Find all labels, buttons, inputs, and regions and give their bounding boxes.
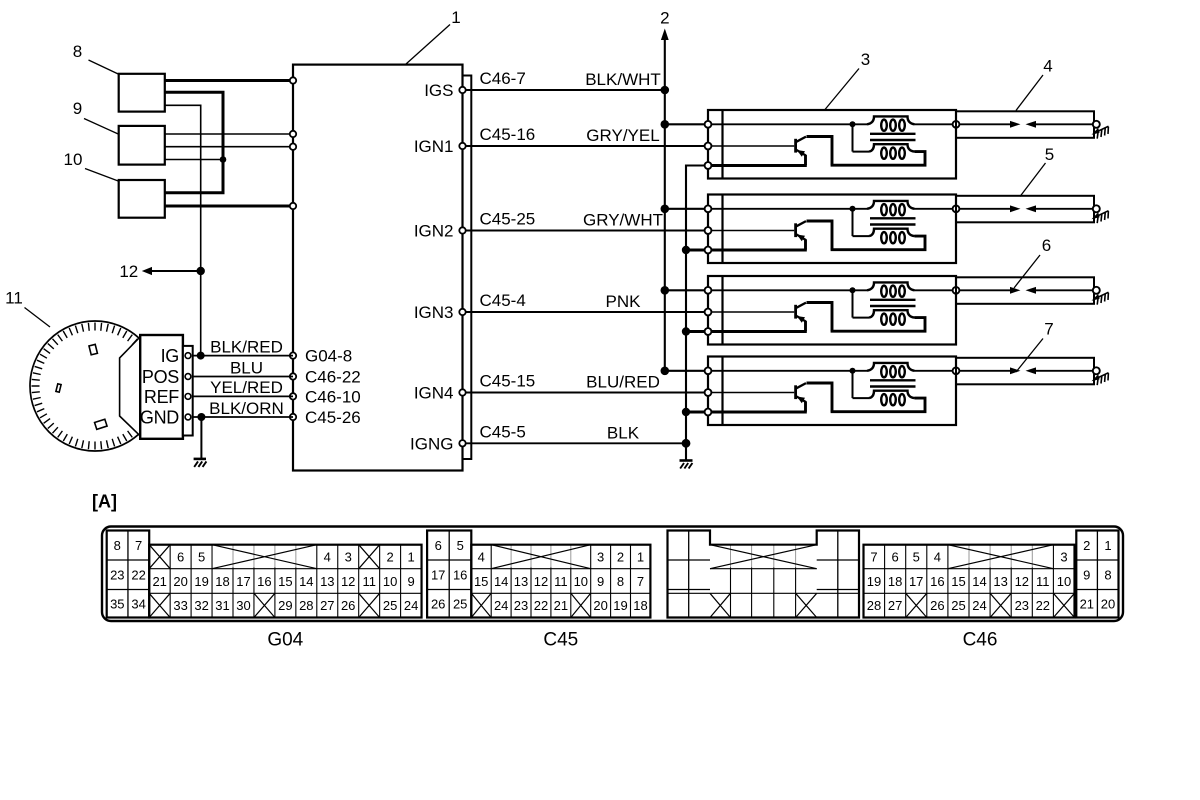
svg-text:35: 35 [110,596,124,611]
C46 pin 3 [1060,550,1067,565]
svg-text:BLU/RED: BLU/RED [586,373,660,392]
G04 pin 12 [341,574,355,589]
ECU pin IGN4 [414,384,466,403]
svg-text:30: 30 [236,598,250,613]
transformer T3 secondary winding [853,290,915,325]
C45 keyway [491,545,591,569]
G04 pin 10 [383,574,397,589]
connector middle shell [668,531,860,618]
svg-text:1: 1 [637,550,644,565]
svg-text:32: 32 [194,598,208,613]
spark plug 5 gap [960,205,1093,212]
C45 blocked cavity [471,593,491,617]
label 8 [73,42,118,74]
C46 pin 18 [888,574,902,589]
svg-text:15: 15 [951,574,965,589]
svg-text:6: 6 [1042,236,1051,255]
C46 pin 22 [1036,598,1050,613]
G04 pin 13 [320,574,334,589]
transistor Q3 [796,303,832,332]
svg-text:IGN2: IGN2 [414,222,454,241]
transformer T2 core [870,218,916,224]
wire YEL/RED (REF to C46-10) [193,378,293,397]
connector name C45 [543,630,578,651]
svg-text:C45-15: C45-15 [480,372,536,391]
svg-text:7: 7 [135,538,142,553]
svg-text:23: 23 [1015,598,1029,613]
C46 pin 6 [891,550,898,565]
wire box8 to ECU pin [165,79,293,82]
svg-text:IG: IG [161,346,179,366]
junction GND wire [197,413,205,421]
G04 pin 24 [404,598,418,613]
svg-text:31: 31 [215,598,229,613]
svg-text:12: 12 [1015,574,1029,589]
C46 pin 16 [930,574,944,589]
connector C45 main grid [471,545,650,618]
label 3 [825,50,870,110]
svg-text:2: 2 [660,9,669,28]
svg-text:18: 18 [215,574,229,589]
C45 pin 2 [617,550,624,565]
svg-text:C46: C46 [963,630,998,651]
distributor pin REF [144,387,191,407]
svg-text:17: 17 [236,574,250,589]
svg-text:29: 29 [278,598,292,613]
ECU pin IGNG [410,434,466,453]
svg-text:BLK: BLK [607,423,640,442]
svg-text:BLK/ORN: BLK/ORN [209,399,284,418]
svg-text:25: 25 [951,598,965,613]
junction bus-module 4 [661,367,670,376]
C45 pin 20 [593,598,607,613]
C45 pin 9 [597,574,604,589]
spark plug 6 terminal [1093,287,1100,294]
ECU left pin 6 [290,373,296,379]
svg-text:28: 28 [299,598,313,613]
svg-text:22: 22 [131,568,145,583]
svg-text:G04-8: G04-8 [305,347,352,366]
spark plug 4 chassis ground [1092,126,1109,138]
pin label C46-10 [305,387,361,406]
svg-text:4: 4 [1043,57,1052,76]
distributor connector box [140,335,183,439]
C46 pin 24 [972,598,986,613]
ECU left pin 4 [290,203,296,209]
G04 pin 17 [236,574,250,589]
svg-text:6: 6 [891,550,898,565]
pin label C46-22 [305,368,361,387]
connector view container [102,527,1123,622]
ECU left pin 5 [290,352,296,358]
C46 pin 28 [867,598,881,613]
junction node IG wire [197,352,205,360]
ECU pin IGN1 [414,137,466,156]
wire ground bus to module 3 pin3 [686,330,705,333]
svg-text:IGS: IGS [424,81,453,100]
wire BLU/RED (C45-15) [466,372,705,393]
G04 keyway [212,545,317,569]
G04 blocked cavity [359,545,380,569]
wire box9 pin C to loop node [165,159,223,161]
svg-text:3: 3 [861,50,870,69]
C46 pin 15 [951,574,965,589]
svg-text:19: 19 [613,598,627,613]
junction gnd-module 2 [682,246,690,254]
C45 pin 7 [637,574,644,589]
C45 pin 19 [613,598,627,613]
svg-text:7: 7 [1044,320,1053,339]
module 1 pin 1 [705,121,712,128]
C46 blocked cavity [906,593,927,617]
C46 pin 4 [934,550,941,565]
label 9 [73,99,118,134]
wire PNK (C45-4) [466,291,705,312]
C46 blocked cavity [990,593,1011,617]
module 1 emitter ground wire [712,164,807,167]
svg-text:33: 33 [173,598,187,613]
svg-text:9: 9 [1083,568,1090,583]
C45 pin 4 [478,550,485,565]
svg-text:6: 6 [435,538,442,553]
svg-text:26: 26 [431,596,445,611]
module 4 junction primary-secondary [850,368,856,374]
svg-text:21: 21 [152,574,166,589]
G04 pin 32 [194,598,208,613]
C45 pin 18 [633,598,647,613]
C45 pin 12 [534,574,548,589]
C46 keyway [948,545,1054,569]
ignition coil module 4 case [708,357,956,426]
svg-text:20: 20 [1101,596,1115,611]
svg-text:4: 4 [478,550,485,565]
svg-text:24: 24 [494,598,508,613]
svg-text:7: 7 [637,574,644,589]
wire BLK/ORN (GND to C45-26) [193,399,293,418]
G04 pin 14 [299,574,313,589]
svg-text:9: 9 [597,574,604,589]
inset label [A] [92,492,117,512]
svg-text:IGN3: IGN3 [414,303,454,322]
svg-text:15: 15 [278,574,292,589]
label 4 [1016,57,1053,111]
G04 pin 31 [215,598,229,613]
svg-text:19: 19 [867,574,881,589]
svg-text:10: 10 [1057,574,1071,589]
junction bus-module 2 [661,205,670,214]
svg-text:IGNG: IGNG [410,434,453,453]
module 2 pin 2 [705,227,712,234]
C45 pin 13 [514,574,528,589]
module 4 emitter ground wire [712,411,807,414]
ground bus [686,166,705,460]
svg-text:1: 1 [407,550,414,565]
G04 pin 5 [198,550,205,565]
ground symbol G1 [680,461,693,469]
svg-text:GRY/YEL: GRY/YEL [586,126,659,145]
svg-text:10: 10 [383,574,397,589]
module 2 primary output wire [915,208,953,210]
spark plug 7 chassis ground [1092,373,1109,385]
transformer T1 primary winding [867,116,915,130]
distributor body 11 [30,321,160,451]
svg-text:16: 16 [257,574,271,589]
junction box9-loop [220,156,227,163]
power bus from ignition switch [661,29,705,371]
G04 pin 2 [386,550,393,565]
module 2 pin 3 [705,247,712,254]
module 3 emitter ground wire [712,330,807,333]
label 5 [1020,145,1054,197]
wire box9 pin A to ECU [165,133,293,135]
svg-text:2: 2 [386,550,393,565]
svg-text:C45-26: C45-26 [305,408,361,427]
svg-text:16: 16 [930,574,944,589]
wire GRY/WHT (C45-25) [466,210,705,231]
spark plug 6 gap [960,287,1093,294]
svg-text:16: 16 [453,568,467,583]
svg-text:25: 25 [383,598,397,613]
module 4 primary output wire [915,370,953,372]
svg-text:8: 8 [114,538,121,553]
svg-text:3: 3 [597,550,604,565]
distributor pin IG [161,346,191,366]
module 2 pin 1 [705,205,712,212]
svg-text:9: 9 [407,574,414,589]
svg-text:13: 13 [320,574,334,589]
C46 pin 5 [913,550,920,565]
G04 pin 30 [236,598,250,613]
svg-text:15: 15 [474,574,488,589]
C45 pin 21 [554,598,568,613]
spark plug assembly 5 body [956,196,1094,223]
pin label C45-26 [305,408,361,427]
junction bus-IGS [661,86,670,95]
C46 pin 7 [870,550,877,565]
distributor pin GND [140,408,191,428]
svg-text:3: 3 [345,550,352,565]
svg-text:[A]: [A] [92,492,117,512]
wire box8 to box10 loop [165,92,223,193]
middle connector blocked cavity left [710,593,731,617]
C46 pin 12 [1015,574,1029,589]
G04 pin 15 [278,574,292,589]
svg-text:C46-10: C46-10 [305,387,361,406]
svg-text:BLK/WHT: BLK/WHT [585,70,661,89]
svg-text:18: 18 [888,574,902,589]
svg-text:22: 22 [1036,598,1050,613]
transistor Q1 [796,137,832,166]
ignition coil module 3 case [708,276,956,345]
component box 9 [119,126,165,165]
module 3 primary output wire [915,289,953,291]
svg-text:10: 10 [64,150,83,169]
svg-text:24: 24 [404,598,418,613]
wire BLK (C45-5) [466,422,686,443]
component box 8 [119,74,165,112]
ignition coil module 2 case [708,195,956,264]
svg-text:5: 5 [913,550,920,565]
svg-text:12: 12 [534,574,548,589]
svg-text:14: 14 [972,574,986,589]
module 3 pin 3 [705,328,712,335]
module 2 emitter ground wire [712,249,807,252]
C46 pin 19 [867,574,881,589]
ECU left pin 2 [290,131,296,137]
svg-text:8: 8 [73,42,82,61]
svg-text:IGN4: IGN4 [414,384,454,403]
svg-text:11: 11 [1036,574,1050,589]
module 1 primary output wire [915,123,953,125]
G04 pin 6 [177,550,184,565]
svg-text:BLK/RED: BLK/RED [210,337,283,356]
distributor ground drop [200,417,202,458]
svg-text:C45-4: C45-4 [480,291,526,310]
wire bus to coil module 2 pin1 [665,208,705,210]
C45 pin 8 [617,574,624,589]
svg-text:20: 20 [593,598,607,613]
svg-text:4: 4 [934,550,941,565]
wire box10 to ECU pin [165,205,293,208]
wire bus to coil module 3 pin1 [665,289,705,291]
transistor Q2 base wire [712,230,795,232]
C45 pin 3 [597,550,604,565]
distributor rotor vane B [56,384,61,392]
transformer T3 core [870,300,916,306]
svg-text:IGN1: IGN1 [414,137,454,156]
svg-text:27: 27 [320,598,334,613]
G04 pin 1 [407,550,414,565]
svg-text:26: 26 [930,598,944,613]
connector G04 side block [107,531,150,618]
wire box8 branch down to IG node [165,105,201,355]
ECU left pin 3 [290,144,296,150]
C45 pin 23 [514,598,528,613]
G04 pin 19 [194,574,208,589]
svg-text:24: 24 [972,598,986,613]
svg-text:23: 23 [514,598,528,613]
svg-text:C45-25: C45-25 [480,210,536,229]
svg-text:G04: G04 [267,630,303,651]
module 1 output pin [953,121,960,128]
C46 pin 17 [909,574,923,589]
svg-text:9: 9 [73,99,82,118]
svg-text:11: 11 [362,574,376,589]
module 3 secondary return path [831,318,925,332]
G04 pin 29 [278,598,292,613]
distributor pin POS [142,367,191,387]
junction gnd-module 3 [682,327,690,335]
transformer T2 primary winding [867,201,915,215]
G04 pin 16 [257,574,271,589]
component box 10 [119,180,165,218]
svg-text:2: 2 [617,550,624,565]
transformer T3 primary winding [867,282,915,296]
module 1 supply wire [712,123,868,125]
module 1 pin 2 [705,143,712,150]
svg-text:3: 3 [1060,550,1067,565]
svg-text:2: 2 [1083,538,1090,553]
svg-text:18: 18 [633,598,647,613]
wire BLK/WHT (C46-7) [466,69,665,90]
G04 pin 33 [173,598,187,613]
C46 pin 25 [951,598,965,613]
svg-text:12: 12 [119,262,138,281]
junction gnd-module 4 [682,408,690,416]
svg-text:28: 28 [867,598,881,613]
svg-text:BLU: BLU [230,358,263,377]
junction bus-module 1 [661,120,670,129]
G04 blocked cavity [254,593,275,617]
C46 blocked cavity [1053,593,1074,617]
svg-text:12: 12 [341,574,355,589]
G04 pin 26 [341,598,355,613]
svg-text:REF: REF [144,387,179,407]
module 4 pin 1 [705,367,712,374]
C46 pin 13 [993,574,1007,589]
spark plug 5 terminal [1093,205,1100,212]
wire ground bus to module 4 pin3 [686,411,705,414]
C45 pin 24 [494,598,508,613]
ECU left pin 7 [290,393,296,399]
svg-text:25: 25 [453,596,467,611]
wire GRY/YEL (C45-16) [466,125,705,146]
G04 pin 28 [299,598,313,613]
ECU connector strip [463,76,472,460]
wire BLK/RED (IG to G04-8) [193,337,293,356]
label 2 [660,9,669,28]
connector C45 side block [427,531,471,618]
middle connector keyway [710,545,817,569]
C45 pin 14 [494,574,508,589]
module 2 supply wire [712,208,868,210]
junction gnd-IGNG [682,439,691,448]
spark plug 7 terminal [1093,367,1100,374]
junction node 12 [197,267,205,275]
svg-text:5: 5 [1045,145,1054,164]
svg-text:C46-22: C46-22 [305,368,361,387]
transistor Q4 [796,383,832,412]
svg-text:6: 6 [177,550,184,565]
C45 pin 10 [574,574,588,589]
transistor Q2 [796,221,832,250]
G04 pin 11 [362,574,376,589]
ECU pin IGS [424,81,465,100]
wire BLU (POS to C46-22) [193,358,293,377]
module 4 pin 3 [705,409,712,416]
spark plug 5 chassis ground [1092,211,1109,223]
module 4 supply wire [712,370,868,372]
svg-text:14: 14 [494,574,508,589]
spark plug assembly 6 body [956,277,1094,304]
G04 pin 4 [324,550,331,565]
connector name G04 [267,630,303,651]
ECU left pin 1 [290,77,296,83]
svg-text:11: 11 [5,289,23,308]
module 2 output pin [953,205,960,212]
module 1 junction primary-secondary [850,121,856,127]
ECU box 1 [293,65,463,471]
svg-text:4: 4 [324,550,331,565]
module 2 secondary return path [831,236,925,250]
svg-text:13: 13 [993,574,1007,589]
G04 blocked cavity [149,593,170,617]
C45 pin 22 [534,598,548,613]
module 1 pin 3 [705,162,712,169]
distributor rotor vane C [95,419,107,429]
C46 pin 14 [972,574,986,589]
transistor Q3 base wire [712,311,795,313]
